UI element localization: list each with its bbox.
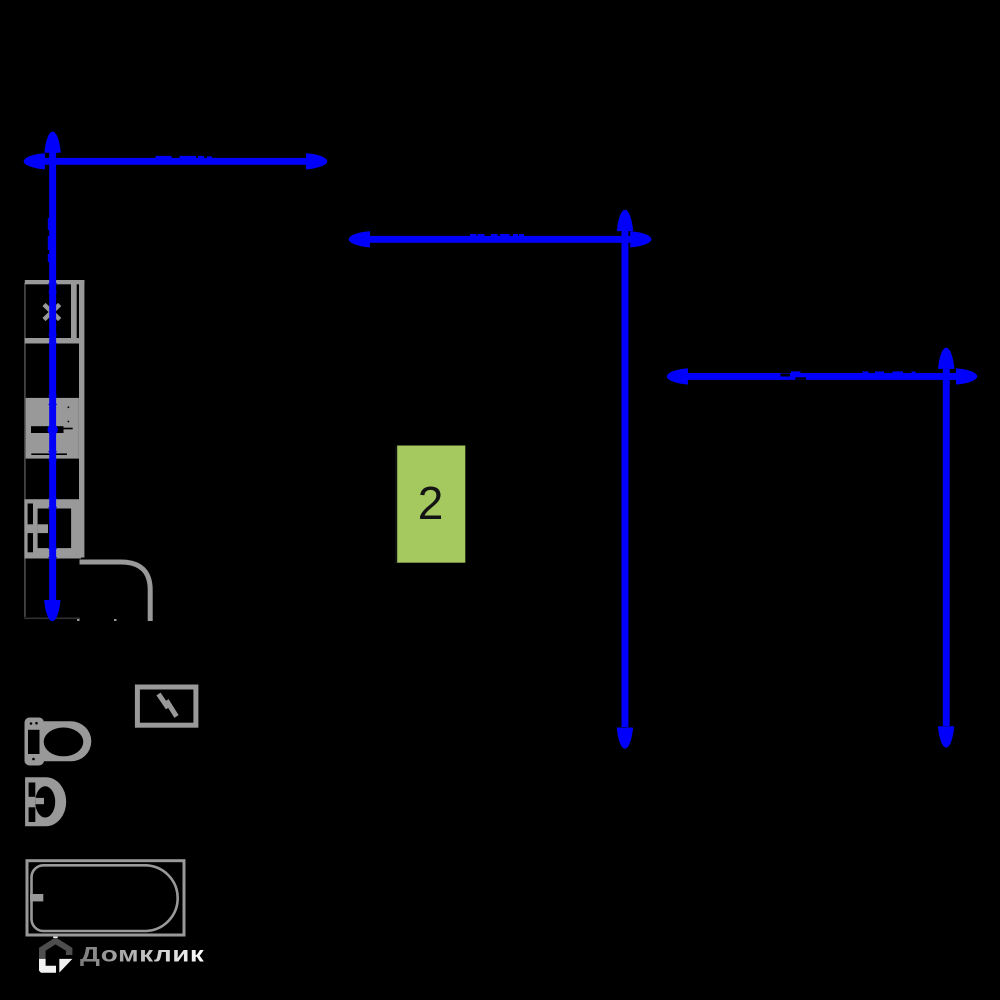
svg-text:Домклик: Домклик	[80, 943, 205, 966]
svg-text:2: 2	[418, 477, 444, 529]
